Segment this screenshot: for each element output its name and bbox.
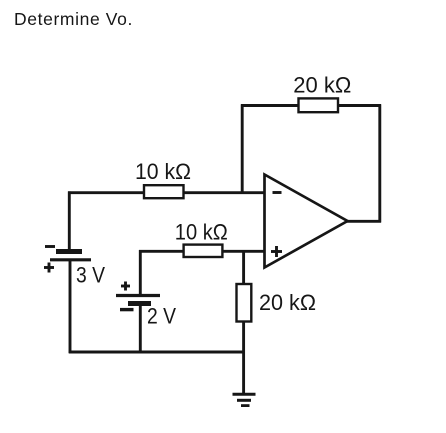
battery V2 2V negative plate: [128, 301, 151, 306]
wire: top feedback horizontal: [241, 104, 381, 107]
wire: 20k grounding branch vertical: [242, 250, 245, 394]
svg-text:3 V: 3 V: [76, 263, 105, 288]
resistor R1 10k (inverting input): [144, 185, 184, 198]
wire: non-inverting input horizontal: [139, 250, 265, 253]
svg-text:20 kΩ: 20 kΩ: [293, 72, 351, 97]
op-amp non-inverting input plus sign: [271, 246, 282, 257]
label 10k ohm (middle): [175, 219, 228, 244]
svg-text:10 kΩ: 10 kΩ: [135, 159, 191, 184]
resistor R3 20k (vertical): [237, 284, 252, 322]
wire: feedback right vertical: [378, 104, 381, 222]
wire: feedback left vertical: [241, 104, 244, 193]
wire: left branch upper vertical: [68, 191, 71, 250]
label 3V: [76, 263, 105, 288]
op-amp U1: [265, 175, 348, 268]
label 10k ohm (upper): [135, 159, 191, 184]
battery V1 3V positive plate: [50, 258, 91, 261]
resistor R2 10k (non-inverting input): [184, 245, 223, 257]
wire: 2V branch upper vertical: [139, 250, 142, 295]
svg-text:10 kΩ: 10 kΩ: [175, 219, 228, 244]
title text: [14, 9, 133, 29]
ground: [233, 394, 256, 405]
battery V1 3V negative plate: [56, 249, 82, 254]
battery V2 minus sign: [120, 308, 134, 311]
label 20k ohm (top): [293, 72, 351, 97]
svg-text:Determine Vo.: Determine Vo.: [14, 9, 133, 29]
battery V1 plus sign: [44, 263, 54, 273]
wire: bottom rail: [69, 351, 245, 354]
wire: 2V branch lower vertical: [139, 303, 142, 353]
battery V2 plus sign: [121, 282, 130, 291]
wire: inverting input horizontal: [68, 191, 265, 194]
battery V1 minus sign: [45, 245, 55, 248]
battery V2 2V positive plate: [116, 294, 160, 297]
resistor RF 20k (top): [299, 98, 339, 112]
svg-text:20 kΩ: 20 kΩ: [259, 290, 316, 315]
label 20k ohm (vertical resistor): [259, 290, 316, 315]
svg-text:2 V: 2 V: [147, 304, 176, 329]
wire: op-amp output: [346, 220, 381, 223]
label 2V: [147, 304, 176, 329]
wire: left branch lower vertical: [69, 260, 72, 353]
op-amp inverting input minus sign: [273, 191, 282, 194]
